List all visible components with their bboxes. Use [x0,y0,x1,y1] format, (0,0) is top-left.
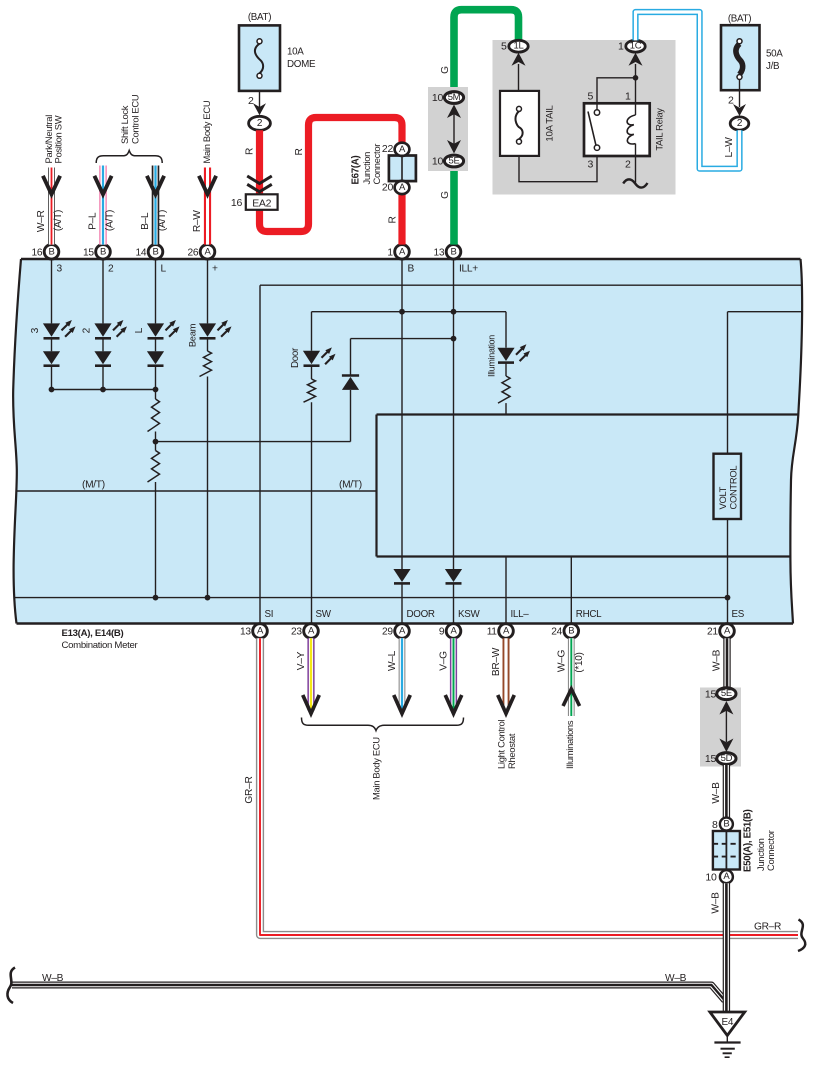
svg-text:1L: 1L [514,41,524,52]
svg-text:A: A [204,246,211,257]
svg-text:Main Body ECU: Main Body ECU [201,100,212,163]
pin 9 A (KSW) [439,624,461,639]
svg-text:3: 3 [30,327,41,333]
LED indicator 3 (col1) [30,320,76,338]
pin 15 B [83,245,110,260]
meter name E13(A), E14(B) Combination Meter [62,628,139,651]
svg-text:RHCL: RHCL [576,609,602,620]
svg-text:22: 22 [382,143,394,155]
svg-text:R: R [388,216,399,223]
connector 5E (lower) [705,688,736,701]
svg-text:13: 13 [433,248,444,259]
svg-text:26: 26 [187,248,198,259]
svg-text:V–G: V–G [439,651,450,671]
connector circle 22 A [382,143,409,156]
TAIL relay box [584,103,665,156]
wire GR-R (SI) [244,638,798,935]
fuse 50A J/B [721,14,783,91]
wire G (green) tail fuse to meter [454,10,519,245]
svg-text:W–B: W–B [711,892,722,914]
connector 5D [705,753,736,766]
relay block (gray) [493,40,676,195]
header Shift Lock Control ECU [119,94,140,144]
svg-text:(BAT): (BAT) [248,12,271,23]
svg-text:DOME: DOME [287,59,316,70]
svg-text:29: 29 [382,627,393,638]
svg-text:Beam: Beam [187,323,198,347]
svg-text:(A/T): (A/T) [53,210,64,231]
resistor Illumination [498,362,510,414]
svg-text:VOLT: VOLT [717,486,728,509]
pin 24 B (RHCL) [551,624,578,639]
svg-text:E67(A): E67(A) [351,156,362,185]
svg-text:B: B [450,246,456,257]
svg-text:3: 3 [57,264,63,275]
svg-text:15: 15 [83,248,94,259]
connector 1C [618,40,645,52]
svg-text:CONTROL: CONTROL [727,466,738,510]
svg-text:Main Body ECU: Main Body ECU [371,737,382,800]
node labels 3 2 L + B ILL+ [57,264,479,275]
svg-text:5E: 5E [721,688,732,699]
wire R (red) DOME to EA2 to E67 [260,118,403,232]
wire fuse bottom to relay pin 3 [519,150,597,181]
svg-text:(A/T): (A/T) [157,210,168,231]
brace over P-L and B-L [96,151,162,164]
svg-text:5D: 5D [721,753,733,764]
E50 labels [743,809,777,872]
svg-text:GR–R: GR–R [244,776,255,803]
LED Door [290,312,336,368]
pin 1 A [387,245,409,260]
inner module box [377,415,799,557]
label R (left of riser) [294,148,305,155]
svg-text:GR–R: GR–R [754,922,781,933]
svg-text:2: 2 [728,95,734,107]
wire W-B (E50 to ground) [711,883,727,1012]
svg-text:3: 3 [587,159,593,171]
svg-text:2: 2 [737,118,743,129]
break symbol right (GR-R) [798,920,805,952]
svg-text:16: 16 [31,248,42,259]
wire W-L (DOOR) [387,638,410,713]
wire V-G (KSW) [439,638,462,713]
svg-text:13: 13 [240,627,251,638]
svg-text:5: 5 [587,90,593,102]
svg-text:24: 24 [551,627,562,638]
svg-text:EA2: EA2 [252,197,271,209]
svg-text:2: 2 [248,95,254,107]
wave (circuit continues) [623,179,647,187]
connector 5M [432,92,464,105]
brace Main Body ECU [302,718,464,801]
LED Illumination [487,312,531,377]
pin 13 B [433,245,460,260]
svg-text:B: B [568,626,574,637]
pin 29 A (DOOR) [382,624,409,639]
svg-text:50A: 50A [766,49,783,60]
connector circle 20 A [382,181,409,194]
bottom pin name labels [265,609,745,620]
label R (above pin 1) [388,216,399,223]
pin 21 A (ES) [707,624,734,639]
svg-text:Connector: Connector [765,830,776,871]
svg-text:B–L: B–L [140,212,151,230]
svg-text:Position SW: Position SW [52,115,63,163]
label R (left of DOME drop) [245,148,256,155]
svg-text:E13(A), E14(B): E13(A), E14(B) [62,628,124,639]
pin 11 A (ILL-) [487,624,514,639]
resistor col3 lower [148,451,160,598]
E67 labels [351,144,383,185]
wire: ILL- column [505,557,507,624]
svg-text:A: A [257,626,264,637]
svg-text:V–Y: V–Y [296,651,307,670]
svg-text:DOOR: DOOR [407,609,435,620]
arrows between 5M and 5E [447,105,461,154]
svg-text:14: 14 [135,248,146,259]
diode mid (points up) [342,339,359,442]
svg-text:B: B [408,264,415,275]
break symbol left (W-B) [7,968,15,1004]
svg-text:Combination Meter: Combination Meter [62,640,139,651]
svg-text:KSW: KSW [458,609,480,620]
wire R-W (col4) [192,168,216,245]
svg-text:10: 10 [432,92,444,104]
svg-text:16: 16 [231,197,243,209]
svg-text:1: 1 [387,248,393,259]
DOME fuse pin 2 [248,91,266,115]
svg-text:21: 21 [707,627,718,638]
wire W-R (col1) [36,168,64,245]
connector circle 2 [249,116,271,130]
wire relay pin5 to coil node [597,75,638,110]
svg-text:10A: 10A [287,47,304,58]
svg-text:Connector: Connector [371,144,382,185]
connector 5E [432,155,464,168]
svg-text:5: 5 [501,41,507,53]
wire B-L (col3) [140,166,168,245]
diode DOOR [393,415,410,624]
svg-text:2: 2 [257,118,263,129]
svg-text:A: A [503,626,510,637]
svg-text:15: 15 [705,753,717,765]
svg-text:Door: Door [290,347,301,368]
svg-text:ES: ES [732,609,745,620]
svg-text:B: B [48,246,54,257]
pin 26 A [187,245,214,260]
svg-text:A: A [450,626,457,637]
svg-text:8: 8 [712,819,718,831]
LED indicator 2 (col2) [82,320,128,338]
label L-W [724,137,735,158]
svg-text:(BAT): (BAT) [728,14,751,25]
svg-text:Illumination: Illumination [487,335,497,377]
svg-text:10: 10 [705,871,717,883]
svg-text:L–W: L–W [724,137,735,158]
svg-text:W–L: W–L [387,650,398,671]
diode below LED L [147,338,164,399]
connector circle 8 B [712,818,733,831]
svg-text:W–B: W–B [711,782,722,804]
svg-text:E4: E4 [721,1017,733,1028]
wire: SI column and top horizontal to right edge [260,285,803,624]
arrow below 1L [512,53,526,91]
svg-text:W–B: W–B [712,649,723,671]
svg-text:2: 2 [82,327,93,333]
svg-text:A: A [399,144,406,155]
wire W-G (RHCL) [557,638,586,716]
junction 5E/5D gray block [700,688,741,767]
svg-text:TAIL Relay: TAIL Relay [654,108,665,151]
svg-text:15: 15 [705,688,717,700]
relay pin labels 5 1 3 2 [587,90,631,170]
diode below LED 2 [94,338,111,390]
combination meter body (light blue box with torn edges) [13,259,802,624]
label Light Control Rheostat [496,720,518,769]
svg-text:10A TAIL: 10A TAIL [545,104,556,141]
svg-text:2: 2 [108,264,114,275]
svg-text:SW: SW [316,609,332,620]
wire W-B (5D to E50) [711,765,727,818]
svg-text:1: 1 [618,41,624,53]
svg-text:A: A [724,626,731,637]
svg-text:L: L [134,327,145,333]
svg-text:A: A [399,626,406,637]
svg-text:A: A [723,871,730,882]
wire: ES column horizontal to right edge [728,311,803,313]
LED indicator L (col3) [134,320,180,338]
wire W-B horizontal [12,973,725,1001]
wire BR-W (ILL-) [491,638,514,713]
svg-text:R: R [294,148,305,155]
wire: horizontal joining cols1-3 [49,387,159,393]
VOLT CONTROL [714,454,742,519]
wire L-W (light blue double) [636,12,740,169]
pin 13 A (SI) [240,624,267,639]
wire: horizontal col3-to-diode [156,441,351,443]
svg-text:ILL+: ILL+ [459,264,478,275]
label G upper [440,66,451,74]
svg-text:W–B: W–B [665,973,687,984]
wire V-Y (SW) [296,638,319,713]
svg-text:J/B: J/B [766,61,780,72]
svg-text:ILL–: ILL– [511,609,530,620]
svg-text:(M/T): (M/T) [339,480,362,491]
svg-text:R–W: R–W [192,210,203,232]
svg-text:5E: 5E [448,156,459,167]
fuse 10A DOME [239,12,316,91]
resistor Beam [200,338,212,598]
splice box EA2 [231,194,278,210]
svg-text:B: B [723,819,729,830]
label G lower [440,191,451,199]
resistor Door [304,366,316,624]
connector 1L [501,40,528,52]
svg-text:+: + [212,264,218,275]
svg-text:SI: SI [265,609,274,620]
wire: RHCL column [570,557,572,624]
svg-text:A: A [399,246,406,257]
pin 16 B [31,245,58,260]
resistor col3 upper [148,399,160,451]
diode KSW [445,415,462,624]
J/B fuse pin 2 [728,80,746,117]
connector circle 10 A [705,870,732,883]
wire R (red) E67 to pin 1 [398,194,405,245]
relay coil [627,64,635,183]
svg-text:Light Control: Light Control [496,720,507,769]
wire: diode-to-ILL+ horizontal [351,336,457,342]
svg-text:23: 23 [291,627,302,638]
svg-text:A: A [308,626,315,637]
svg-text:W–B: W–B [42,973,64,984]
svg-text:B: B [152,246,158,257]
svg-text:Rheostat: Rheostat [506,733,517,769]
svg-text:BR–W: BR–W [491,647,502,676]
wire W-B (ES to 5E) [712,638,728,687]
splice EA2 chevrons [247,176,272,192]
arrows between 5E and 5D [719,701,733,752]
svg-text:10: 10 [432,156,444,168]
svg-text:B: B [100,246,106,257]
diode below LED 3 [43,338,60,390]
ground E4 [710,1012,745,1057]
svg-text:G: G [440,66,451,74]
svg-text:P–L: P–L [87,212,98,230]
wire: ES column [725,312,731,624]
svg-text:1C: 1C [630,41,642,52]
(M/T) alternate line [17,480,377,492]
svg-text:5M: 5M [448,92,461,103]
svg-text:R: R [245,148,256,155]
svg-text:11: 11 [487,627,498,638]
svg-text:Illuminations: Illuminations [564,720,575,769]
svg-text:E50(A), E51(B): E50(A), E51(B) [743,809,754,872]
header Park/Neutral Position SW [43,115,64,164]
relay switch [588,110,600,151]
pin 23 A (SW) [291,624,318,639]
fuse 10A TAIL [500,91,556,156]
pin 14 B [135,245,162,260]
svg-text:(*10): (*10) [574,652,585,672]
svg-text:9: 9 [439,627,445,638]
svg-text:(A/T): (A/T) [105,210,116,231]
label Illuminations [564,720,575,769]
svg-text:1: 1 [625,90,631,102]
header Main Body ECU [201,100,212,163]
junction connector E50(A), E51(B) [713,831,740,870]
svg-text:W–G: W–G [557,649,568,672]
svg-text:(M/T): (M/T) [82,480,105,491]
junction connector E67(A) [389,156,416,182]
svg-text:G: G [440,191,451,199]
svg-text:Control ECU: Control ECU [129,94,140,144]
LED Beam (col4) [187,320,232,347]
label GR-R horizontal [754,922,781,933]
svg-text:A: A [399,182,406,193]
wire: bottom common rail [14,595,728,601]
connector circle 2 (J/B) [730,117,749,130]
svg-text:W–R: W–R [36,210,47,232]
wire: Door/B/ILL+/Illumination horizontal [312,309,507,315]
svg-text:L: L [161,264,167,275]
svg-text:2: 2 [625,159,631,171]
wire: pin stubs col1-4, B, ILL+ [52,260,454,415]
junction 5M/5E gray block [428,87,468,171]
svg-text:20: 20 [382,182,394,194]
arrow below 1C [629,53,643,66]
wire P-L (col2) [87,166,115,245]
